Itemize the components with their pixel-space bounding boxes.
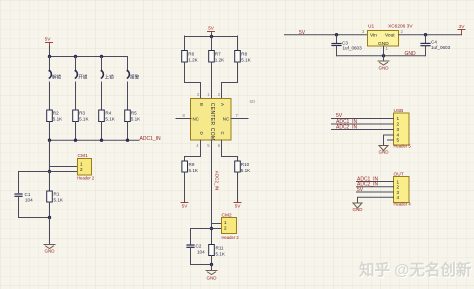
- wire col3 button to R4: [101, 82, 103, 110]
- pin 8 stub: [176, 113, 191, 119]
- capacitor C1 104: [15, 192, 33, 202]
- svg-text:R2: R2: [53, 111, 59, 116]
- svg-text:C4: C4: [431, 40, 437, 45]
- resistor R4 5.1K: [99, 110, 116, 122]
- wire bus down to CM1 node: [49, 140, 51, 172]
- svg-text:COM: COM: [209, 128, 215, 141]
- wire down to ground mid: [211, 265, 213, 271]
- button S3 上锁: [101, 70, 115, 81]
- wire U1 GND pin down: [383, 46, 385, 61]
- svg-text:ADC2_IN: ADC2_IN: [336, 125, 358, 131]
- wire col2 R3 to bottom bus: [75, 122, 77, 141]
- svg-text:2: 2: [80, 167, 83, 172]
- svg-text:5.1K: 5.1K: [53, 117, 63, 122]
- svg-text:R11: R11: [216, 246, 225, 251]
- wire CM2 pin2 stub: [191, 228, 222, 230]
- wire IC pin4 to R9: [185, 140, 201, 161]
- wire R9 to 5V: [184, 172, 186, 203]
- wire OUT pin1 ADC1_IN: [357, 181, 394, 183]
- svg-text:5.1K: 5.1K: [105, 117, 115, 122]
- wire 5V input to regulator: [285, 34, 368, 36]
- junction bottom link mid: [210, 263, 213, 266]
- regulator U1 XC6206: [368, 24, 414, 48]
- svg-text:R4: R4: [105, 111, 111, 116]
- resistor R1 5.1K: [47, 172, 64, 218]
- wire IC pin6 to R10: [222, 140, 238, 161]
- watermark 知乎 @无名创新: [359, 260, 473, 280]
- svg-text:R8: R8: [241, 52, 247, 57]
- wire col3 R4 to bottom bus: [101, 122, 103, 141]
- svg-text:GND: GND: [207, 276, 218, 281]
- wire col2 button to R3: [75, 82, 77, 110]
- wire C4 top: [425, 35, 427, 44]
- svg-text:R6: R6: [188, 52, 194, 57]
- svg-text:5.1K: 5.1K: [189, 168, 199, 173]
- wire USB pin2 ADC1_IN: [332, 123, 394, 125]
- resistor R10 5.1K: [235, 161, 251, 173]
- connector OUT Header 4: [394, 172, 412, 207]
- wire R6 to IC pin3: [185, 62, 201, 99]
- connector USB Header 5: [394, 108, 412, 149]
- svg-text:5.1K: 5.1K: [54, 198, 64, 203]
- button S2 开锁: [75, 70, 88, 81]
- svg-text:U1: U1: [368, 24, 374, 30]
- junction top bus col1: [48, 55, 51, 58]
- button S4 报警: [127, 70, 140, 81]
- svg-text:2: 2: [397, 122, 400, 127]
- junction bottom bus col4: [126, 139, 129, 142]
- junction middle bus: [210, 35, 213, 38]
- wire col1 R2 to bottom bus: [49, 122, 51, 141]
- svg-text:R1: R1: [54, 192, 60, 197]
- svg-text:5V: 5V: [45, 37, 52, 43]
- wire R10 to 5V: [237, 172, 239, 203]
- svg-text:5.1K: 5.1K: [131, 117, 141, 122]
- svg-text:ADC1_IN: ADC1_IN: [140, 136, 162, 142]
- wire node to C1 branch: [19, 172, 50, 193]
- wire C1 to bottom link: [19, 197, 50, 218]
- svg-text:5: 5: [397, 138, 400, 143]
- wire col3 bus to button: [101, 57, 103, 72]
- wire right column to R8: [237, 36, 239, 50]
- wire CM1 pin1 stub: [50, 166, 78, 168]
- svg-text:3: 3: [397, 190, 400, 195]
- capacitor C3 1uf_0603: [332, 41, 362, 51]
- ground GND (OUT): [353, 203, 364, 212]
- wire Vout to 3V: [399, 34, 462, 36]
- svg-text:GND: GND: [353, 207, 364, 212]
- svg-text:Vin: Vin: [370, 33, 377, 39]
- svg-text:上锁: 上锁: [105, 74, 115, 81]
- svg-text:B: B: [199, 103, 204, 106]
- wire col1 button to R2: [49, 82, 51, 110]
- svg-text:5V: 5V: [208, 26, 215, 32]
- junction node CM1: [48, 170, 51, 173]
- svg-text:3: 3: [397, 127, 400, 132]
- svg-text:1.2K: 1.2K: [188, 58, 198, 63]
- svg-text:NC: NC: [193, 116, 199, 121]
- wire down to ground: [49, 218, 51, 245]
- power port 5V (below R10): [234, 203, 241, 210]
- junction bottom bus col3: [100, 139, 103, 142]
- wire C3 bottom: [336, 46, 338, 56]
- wire CM1 pin2 stub: [50, 171, 78, 173]
- wire C3 top: [336, 35, 338, 43]
- svg-text:C2: C2: [196, 244, 202, 249]
- resistor R8 5.1K: [235, 51, 252, 63]
- pin 7 stub: [231, 113, 248, 119]
- junction GND tap: [382, 54, 385, 57]
- wire C4 bottom: [425, 46, 427, 56]
- resistor R7 1.2K: [209, 51, 225, 63]
- wire USB pin1 5V: [332, 118, 394, 120]
- resistor R5 5.1K: [125, 110, 141, 122]
- resistor R2 5.1K: [47, 110, 63, 122]
- svg-text:104: 104: [25, 197, 33, 202]
- svg-text:5.1K: 5.1K: [241, 58, 251, 63]
- wire C2 to bottom link: [191, 248, 212, 265]
- svg-text:报警: 报警: [130, 74, 140, 81]
- svg-text:1uf_0603: 1uf_0603: [343, 46, 363, 51]
- junction top bus col2: [74, 55, 77, 58]
- junction top bus col3: [100, 55, 103, 58]
- wire col1 bus to button: [49, 57, 51, 72]
- wire C2 branch: [190, 229, 192, 245]
- wire OUT pin2 ADC2_IN: [357, 186, 394, 188]
- svg-text:开锁: 开锁: [78, 74, 88, 81]
- svg-text:4: 4: [397, 195, 400, 200]
- svg-text:1.2K: 1.2K: [215, 58, 225, 63]
- svg-text:ADC2_IN: ADC2_IN: [214, 171, 219, 190]
- svg-text:Header 2: Header 2: [77, 176, 95, 181]
- svg-text:5V: 5V: [182, 204, 189, 210]
- svg-text:5V: 5V: [299, 30, 306, 36]
- svg-text:GND: GND: [379, 150, 390, 155]
- wire USB pin3 ADC2_IN: [332, 129, 394, 131]
- svg-text:3V: 3V: [459, 24, 466, 30]
- junction C3 tap: [335, 33, 338, 36]
- svg-text:Header 5: Header 5: [394, 144, 412, 149]
- svg-text:D: D: [199, 132, 204, 135]
- junction CM2 node: [210, 227, 213, 230]
- svg-text:R9: R9: [189, 162, 195, 167]
- capacitor C4 1uf_0603: [421, 40, 451, 51]
- svg-text:5.1K: 5.1K: [79, 117, 89, 122]
- wire col4 button to R5: [127, 82, 129, 110]
- svg-text:1: 1: [224, 220, 227, 225]
- wire col4 R5 to bottom bus: [127, 122, 129, 141]
- wire OUT pin3 5V: [357, 191, 394, 193]
- wire mid column to R7: [211, 36, 213, 50]
- svg-text:5.1K: 5.1K: [241, 168, 251, 173]
- wire R7 to IC pin1: [211, 62, 213, 99]
- 5-way switch U2 body: [191, 99, 232, 141]
- connector CM2 Header 2: [222, 213, 240, 241]
- svg-text:1uf_0603: 1uf_0603: [431, 45, 451, 50]
- svg-text:C: C: [220, 132, 225, 135]
- wire 5V drop to top bus: [49, 46, 51, 57]
- power port 5V (middle): [208, 26, 215, 35]
- svg-text:Header 4: Header 4: [394, 202, 412, 207]
- svg-text:2: 2: [224, 226, 227, 231]
- svg-text:GND: GND: [405, 51, 417, 57]
- svg-text:Header 2: Header 2: [222, 235, 240, 240]
- resistor R9 5.1K: [182, 161, 199, 173]
- connector CM1 Header 2: [77, 153, 95, 181]
- ground GND (middle): [206, 271, 217, 281]
- wire OUT pin4 to ground: [358, 197, 394, 203]
- ground GND (regulator): [378, 61, 389, 71]
- svg-text:1: 1: [80, 162, 83, 167]
- wire left column to R6: [184, 36, 186, 50]
- svg-text:Vout: Vout: [385, 33, 395, 39]
- ground GND (USB): [379, 146, 390, 155]
- svg-text:5V: 5V: [357, 187, 364, 193]
- svg-text:NC: NC: [223, 116, 229, 121]
- resistor R11 5.1K: [209, 245, 226, 265]
- wire IC pin5 down ADC2 net: [211, 140, 213, 245]
- resistor R3 5.1K: [73, 110, 90, 122]
- wire USB pin5 stub: [388, 139, 394, 141]
- ground GND (left): [44, 245, 55, 254]
- wire CM2 pin1 stub: [212, 223, 222, 225]
- wire R8 to IC pin2: [222, 62, 238, 99]
- button S1 解锁: [49, 70, 62, 81]
- power port 3V: [458, 24, 465, 35]
- svg-text:1: 1: [397, 116, 400, 121]
- svg-text:R10: R10: [241, 162, 250, 167]
- power port 5V (top-left): [45, 37, 53, 47]
- svg-text:A: A: [220, 103, 225, 106]
- wire col4 bus corner down: [127, 57, 129, 72]
- wire col2 bus to button: [75, 57, 77, 72]
- junction bottom bus col2: [74, 139, 77, 142]
- svg-text:解锁: 解锁: [52, 74, 62, 81]
- wire bottom bus ADC1_IN: [50, 139, 140, 141]
- svg-text:R3: R3: [79, 111, 85, 116]
- power port 5V (below R9): [181, 203, 188, 210]
- svg-text:104: 104: [197, 250, 205, 255]
- svg-text:2: 2: [397, 185, 400, 190]
- wire ground rail (regulator): [337, 55, 426, 57]
- svg-text:GND: GND: [45, 249, 56, 254]
- svg-text:5D: 5D: [250, 99, 257, 104]
- junction bottom link: [48, 216, 51, 219]
- svg-text:1: 1: [397, 179, 400, 184]
- junction C4 tap: [424, 33, 427, 36]
- wire middle 5V bus: [185, 34, 238, 37]
- svg-text:CENTER: CENTER: [209, 103, 215, 126]
- svg-text:C1: C1: [25, 192, 31, 197]
- svg-text:知乎 @无名创新: 知乎 @无名创新: [359, 260, 472, 279]
- wire top bus: [50, 56, 128, 58]
- svg-text:R5: R5: [131, 111, 137, 116]
- wire USB pin4 to ground: [384, 135, 394, 146]
- junction bottom bus col1: [48, 139, 51, 142]
- capacitor C2 104: [187, 244, 205, 255]
- svg-text:R7: R7: [215, 52, 221, 57]
- svg-text:5.1K: 5.1K: [216, 252, 226, 257]
- svg-text:GND: GND: [379, 66, 390, 71]
- svg-text:5V: 5V: [235, 204, 242, 210]
- resistor R6 5.1K: [182, 51, 199, 63]
